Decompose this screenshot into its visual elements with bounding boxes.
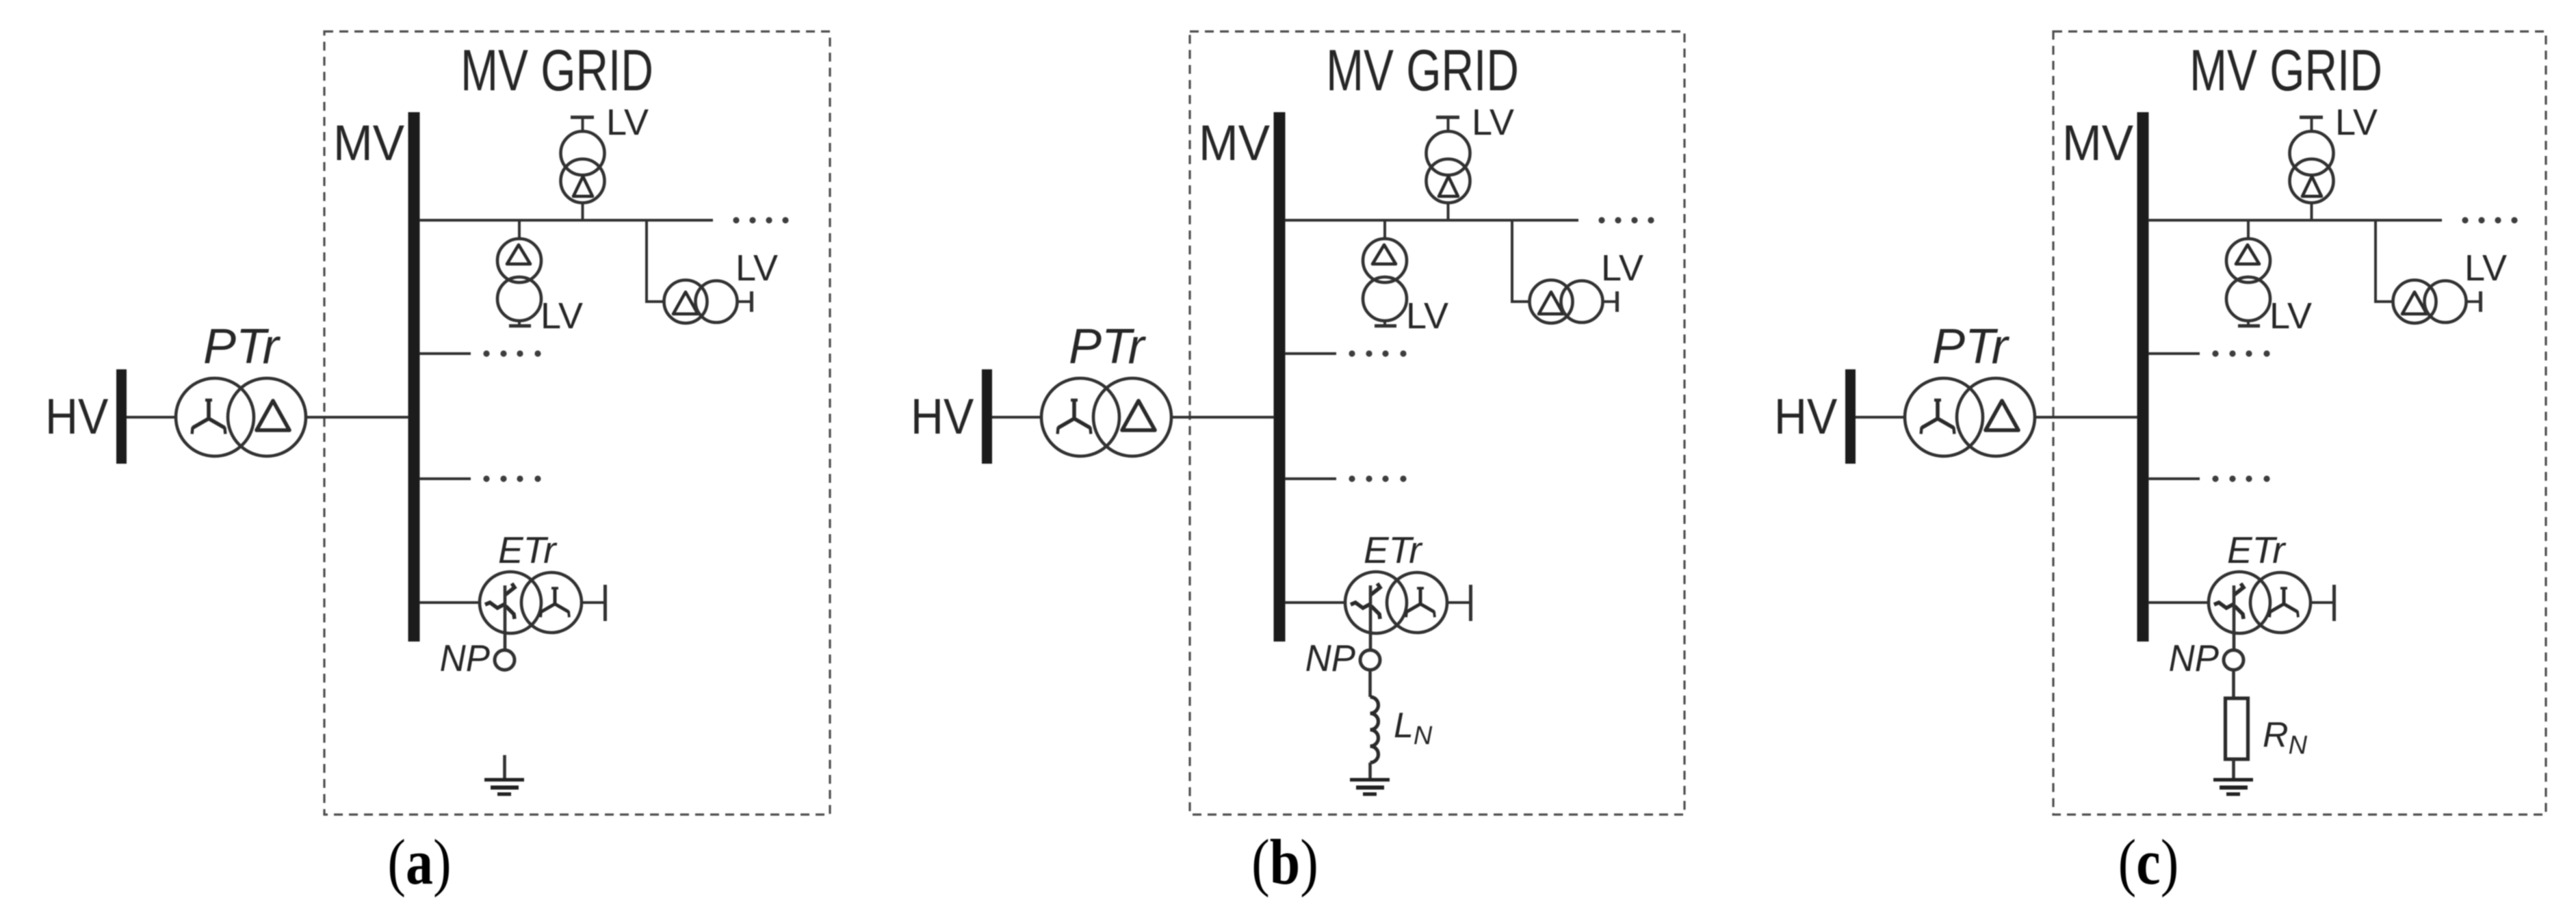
- wire ETr secondary stub (b): [1447, 601, 1469, 604]
- transformer T3 secondary winding (a): [696, 281, 738, 323]
- svg-text:MV: MV: [2062, 116, 2134, 171]
- busbar MV (c): [2137, 112, 2149, 642]
- wire T1 to feeder 1 (b): [1447, 203, 1450, 221]
- wire T3 LV stub (c): [2467, 300, 2480, 303]
- transformer T3 primary winding (delta) (c): [2393, 280, 2436, 324]
- transformer T2 LV terminal bar (c): [2238, 324, 2260, 328]
- svg-text:(a): (a): [387, 826, 451, 898]
- label: MV GRID title (b): [1326, 38, 1519, 103]
- wire PTr to MV busbar (c): [2035, 416, 2137, 419]
- node: feeder 3 continuation dots (c): [2212, 475, 2269, 481]
- wire T3 LV stub (a): [738, 300, 751, 303]
- svg-text:LV: LV: [1472, 102, 1514, 143]
- busbar MV (b): [1274, 112, 1286, 642]
- wire T1 to feeder 1 (a): [582, 203, 584, 221]
- transformer ETr primary winding (zigzag) (a): [480, 572, 541, 633]
- transformer T1 upper winding (a): [561, 131, 605, 175]
- wire ETr neutral to node NP (b): [1369, 585, 1372, 650]
- transformer ETr secondary winding (wye) (b): [1387, 572, 1447, 633]
- wire T1 terminal stub (a): [582, 118, 584, 133]
- wire: feeder 2 stub (a): [419, 352, 471, 355]
- label MV busbar (b): [1199, 116, 1271, 171]
- transformer ETr secondary winding (wye) (a): [521, 572, 582, 633]
- svg-text:LV: LV: [606, 102, 649, 143]
- ground (earth) symbol (a): [484, 778, 524, 796]
- label HV busbar (c): [1774, 388, 1838, 445]
- node: feeder 2 continuation dots (c): [2212, 350, 2269, 356]
- wire T1 to feeder 1 (c): [2311, 203, 2313, 221]
- transformer T1 LV terminal bar (c): [2300, 116, 2323, 119]
- wire PTr to MV busbar (b): [1171, 416, 1274, 419]
- transformer PTr primary winding (wye) (a): [176, 378, 254, 456]
- transformer T1 upper winding (b): [1427, 131, 1470, 175]
- wire HV busbar to PTr (b): [992, 416, 1042, 419]
- wire HV busbar to PTr (c): [1856, 416, 1905, 419]
- svg-text:ETr: ETr: [498, 529, 558, 571]
- transformer T2 LV terminal bar (b): [1375, 324, 1396, 328]
- svg-text:LV: LV: [736, 248, 778, 289]
- svg-text:MV GRID: MV GRID: [1326, 38, 1519, 103]
- svg-text:(b): (b): [1251, 826, 1318, 898]
- wire ETr neutral to node NP (a): [504, 585, 507, 650]
- transformer T1 LV terminal bar (b): [1436, 116, 1459, 119]
- node: feeder 2 continuation dots (a): [483, 350, 541, 356]
- transformer T1 lower winding (delta) (a): [561, 159, 605, 203]
- busbar HV (a): [116, 369, 127, 464]
- transformer T2 lower winding (b): [1363, 277, 1407, 321]
- wire T2 from feeder 1 (a): [518, 220, 521, 239]
- wire NP to resistor RN (c): [2232, 670, 2235, 699]
- terminal bar at ETr secondary (c): [2332, 585, 2336, 621]
- wire MV busbar to ETr (b): [1285, 601, 1346, 604]
- svg-text:NP: NP: [440, 637, 490, 679]
- transformer PTr secondary winding (delta) (a): [228, 378, 306, 456]
- transformer T2 upper winding (delta) (a): [497, 239, 541, 282]
- svg-text:HV: HV: [911, 388, 974, 445]
- node NP (neutral point) (a): [495, 650, 515, 670]
- transformer PTr primary winding (wye) (c): [1905, 378, 1983, 456]
- wire MV busbar to ETr (c): [2148, 601, 2210, 604]
- wire T2 from feeder 1 (c): [2247, 220, 2250, 239]
- label MV busbar (c): [2062, 116, 2134, 171]
- transformer T3 LV terminal bar (c): [2479, 291, 2482, 312]
- node: feeder 3 continuation dots (a): [483, 475, 541, 481]
- caption (c): [2118, 826, 2179, 898]
- wire: feeder 3 stub (c): [2148, 477, 2200, 480]
- transformer PTr primary winding (wye) (b): [1041, 378, 1119, 456]
- svg-text:LV: LV: [2335, 102, 2378, 143]
- wire: branch from feeder 1 to T3 (a): [647, 220, 665, 302]
- enclosure: MV GRID dashed boundary (b): [1190, 31, 1684, 815]
- transformer ETr primary winding (zigzag) (b): [1345, 572, 1407, 633]
- wire: feeder 2 stub (b): [1285, 352, 1336, 355]
- svg-text:PTr: PTr: [1932, 319, 2010, 374]
- wire NP to inductor LN (b): [1368, 670, 1372, 698]
- terminal bar at ETr secondary (b): [1469, 585, 1472, 621]
- label NP (b): [1305, 637, 1355, 679]
- svg-text:LV: LV: [2464, 248, 2507, 289]
- caption (a): [387, 826, 451, 898]
- svg-text:LV: LV: [1601, 248, 1643, 289]
- wire MV busbar to ETr (a): [419, 601, 481, 604]
- wire T2 LV stub (c): [2247, 321, 2250, 326]
- wire T2 LV stub (b): [1383, 321, 1386, 326]
- resistor RN (neutral earthing resistor) (c): [2226, 698, 2248, 759]
- node: feeder 1 continuation dots (a): [733, 217, 788, 223]
- busbar HV (b): [982, 369, 992, 464]
- svg-text:PTr: PTr: [1069, 319, 1147, 374]
- label: MV GRID title (c): [2189, 38, 2382, 103]
- enclosure: MV GRID dashed boundary (c): [2053, 31, 2546, 815]
- label HV busbar (b): [911, 388, 974, 445]
- transformer T2 lower winding (c): [2226, 277, 2270, 321]
- transformer PTr secondary winding (delta) (b): [1093, 378, 1171, 456]
- wire ETr secondary stub (c): [2311, 601, 2332, 604]
- label HV busbar (a): [45, 388, 109, 445]
- transformer T2 upper winding (delta) (b): [1363, 239, 1407, 282]
- panel (b): reactor earthed neutral variant: [911, 31, 1684, 897]
- wire: branch from feeder 1 to T3 (c): [2376, 220, 2394, 302]
- wire ETr neutral to node NP (c): [2233, 585, 2236, 650]
- wire: feeder 2 stub (c): [2148, 352, 2200, 355]
- svg-text:MV GRID: MV GRID: [2189, 38, 2382, 103]
- wire HV busbar to PTr (a): [127, 416, 177, 419]
- wire ETr secondary stub (a): [582, 601, 603, 604]
- caption (b): [1251, 826, 1318, 898]
- node: feeder 3 continuation dots (b): [1349, 475, 1406, 481]
- svg-text:MV: MV: [1199, 116, 1271, 171]
- label NP (c): [2169, 637, 2219, 679]
- transformer T2 LV terminal bar (a): [509, 324, 531, 328]
- transformer T3 LV terminal bar (a): [750, 291, 753, 312]
- transformer T2 upper winding (delta) (c): [2226, 239, 2270, 282]
- wire PTr to MV busbar (a): [306, 416, 408, 419]
- ground (earth) symbol (c): [2213, 778, 2253, 796]
- transformer T2 lower winding (a): [497, 277, 541, 321]
- wire: branch from feeder 1 to T3 (b): [1512, 220, 1531, 302]
- busbar MV (a): [408, 112, 420, 642]
- wire T1 terminal stub (b): [1447, 118, 1450, 133]
- svg-text:MV: MV: [333, 116, 405, 171]
- svg-text:LV: LV: [541, 295, 583, 336]
- transformer T3 primary winding (delta) (a): [664, 280, 707, 324]
- panel (a): isolated / solidly earthed neutral variant: [45, 31, 830, 897]
- wire T3 LV stub (b): [1603, 300, 1617, 303]
- wire to ground (solid earthing) (a): [503, 755, 506, 780]
- ground (earth) symbol (b): [1350, 778, 1390, 796]
- label: MV GRID title (a): [460, 38, 653, 103]
- transformer ETr primary winding (zigzag) (c): [2209, 572, 2270, 633]
- transformer T3 LV terminal bar (b): [1615, 291, 1619, 312]
- transformer PTr secondary winding (delta) (c): [1957, 378, 2035, 456]
- transformer T1 lower winding (delta) (b): [1427, 159, 1470, 203]
- svg-text:NP: NP: [1305, 637, 1355, 679]
- terminal bar at ETr secondary (a): [603, 585, 607, 621]
- node NP (neutral point) (c): [2224, 650, 2243, 670]
- svg-text:LV: LV: [2269, 295, 2312, 336]
- inductor LN (neutral earthing reactor) (b): [1370, 697, 1379, 763]
- wire T2 from feeder 1 (b): [1383, 220, 1386, 239]
- svg-text:HV: HV: [45, 388, 109, 445]
- svg-text:PTr: PTr: [203, 319, 281, 374]
- node NP (neutral point) (b): [1360, 650, 1380, 670]
- node: feeder 2 continuation dots (b): [1349, 350, 1406, 356]
- panel (c): resistor earthed neutral variant: [1774, 31, 2546, 897]
- transformer T3 secondary winding (c): [2425, 281, 2467, 323]
- wire: feeder 3 stub (a): [419, 477, 471, 480]
- wire: feeder 1 from MV busbar (b): [1285, 219, 1578, 222]
- svg-text:LV: LV: [1406, 295, 1448, 336]
- transformer T3 secondary winding (b): [1561, 281, 1603, 323]
- wire resistor RN to ground (c): [2232, 759, 2235, 780]
- transformer ETr secondary winding (wye) (c): [2250, 572, 2311, 633]
- wire T2 LV stub (a): [518, 321, 521, 326]
- svg-text:MV GRID: MV GRID: [460, 38, 653, 103]
- transformer T1 upper winding (c): [2290, 131, 2334, 175]
- svg-text:NP: NP: [2169, 637, 2219, 679]
- wire: feeder 1 from MV busbar (a): [419, 219, 713, 222]
- svg-text:HV: HV: [1774, 388, 1838, 445]
- node: feeder 1 continuation dots (c): [2462, 217, 2517, 223]
- label NP (a): [440, 637, 490, 679]
- wire: feeder 3 stub (b): [1285, 477, 1336, 480]
- transformer T3 primary winding (delta) (b): [1530, 280, 1573, 324]
- busbar HV (c): [1845, 369, 1856, 464]
- svg-text:(c): (c): [2118, 826, 2179, 898]
- label MV busbar (a): [333, 116, 405, 171]
- enclosure: MV GRID dashed boundary (a): [324, 31, 830, 815]
- node: feeder 1 continuation dots (b): [1598, 217, 1654, 223]
- svg-text:ETr: ETr: [2227, 529, 2287, 571]
- wire: feeder 1 from MV busbar (c): [2148, 219, 2442, 222]
- transformer T1 lower winding (delta) (c): [2290, 159, 2334, 203]
- svg-text:ETr: ETr: [1364, 529, 1423, 571]
- transformer T1 LV terminal bar (a): [571, 116, 594, 119]
- wire inductor LN to ground (b): [1368, 763, 1372, 780]
- wire T1 terminal stub (c): [2311, 118, 2313, 133]
